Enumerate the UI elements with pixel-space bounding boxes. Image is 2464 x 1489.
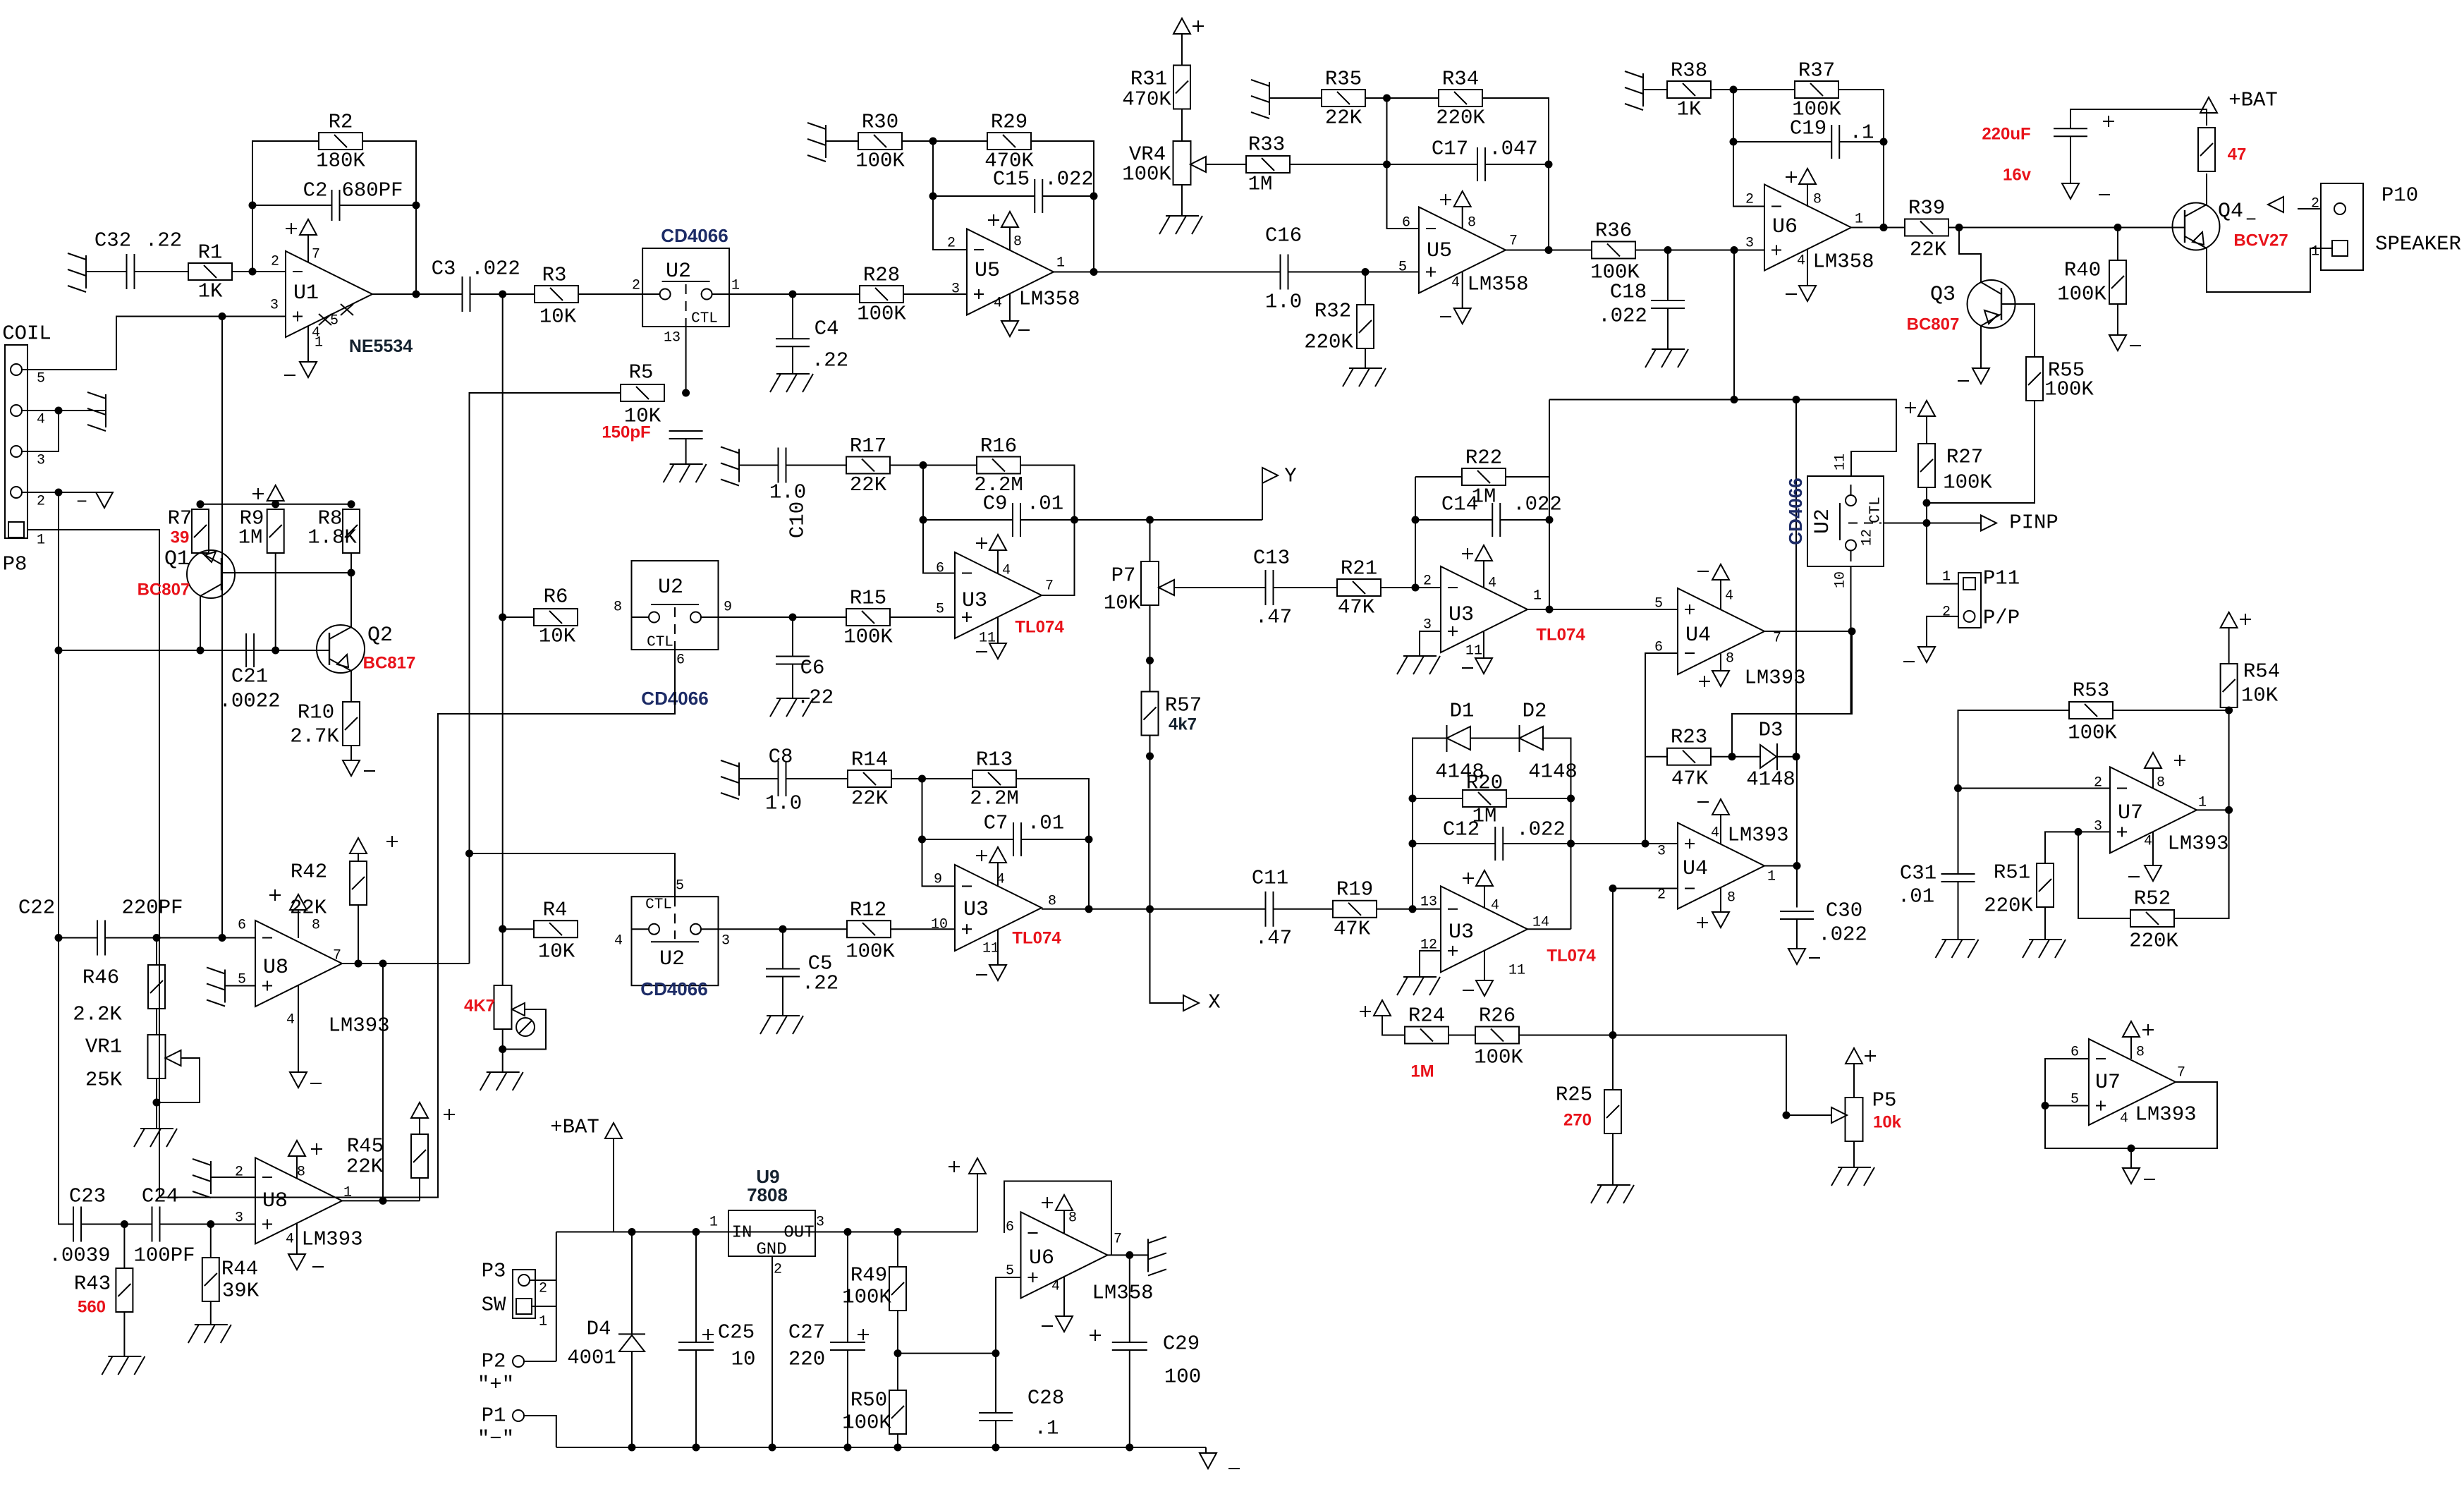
wire R52 to out (2174, 810, 2229, 918)
svg-text:R5: R5 (629, 361, 654, 384)
svg-text:2: 2 (1423, 573, 1432, 590)
node U3b out (1085, 905, 1093, 913)
power - U6a (1786, 286, 1816, 301)
connector P10 (2321, 183, 2363, 270)
wire C10 to R17 (786, 465, 847, 466)
wire R30 to R29 (902, 140, 987, 142)
svg-text:150pF: 150pF (602, 423, 650, 442)
wire control row (1549, 400, 1896, 477)
wire U9 gnd lead (771, 1256, 773, 1447)
op-amp U3d (1441, 566, 1527, 652)
svg-text:C27: C27 (788, 1321, 825, 1344)
node D3 column (1793, 396, 1800, 403)
power - P8 (96, 492, 113, 508)
wire U3d pin3 gnd (1420, 631, 1441, 656)
node C27 bottom (844, 1444, 852, 1452)
node D4 bottom (628, 1444, 636, 1452)
svg-text:1.8K: 1.8K (307, 526, 357, 549)
wire R25 stub (1612, 1035, 1614, 1090)
svg-text:U3: U3 (1448, 603, 1474, 627)
svg-text:8: 8 (1013, 234, 1022, 250)
svg-text:1.0: 1.0 (765, 792, 802, 815)
node C2 left (249, 202, 257, 209)
svg-text:CD4066: CD4066 (1785, 478, 1806, 545)
svg-text:100K: 100K (855, 150, 905, 173)
capacitor C32 (127, 254, 135, 289)
wire U3e V+ stem (1484, 886, 1485, 908)
wire R12 to U3b pin10 (891, 928, 955, 930)
svg-text:.22: .22 (812, 349, 848, 372)
svg-text:100K: 100K (842, 1286, 891, 1309)
wire R4 to signal net (503, 928, 534, 930)
capacitor C12 (1495, 827, 1503, 861)
svg-text:Q3: Q3 (1930, 283, 1956, 307)
wire C12 row to U4a pin3 (1571, 843, 1678, 844)
svg-text:47K: 47K (1338, 596, 1375, 619)
svg-text:100K: 100K (842, 1411, 891, 1435)
svg-text:R22: R22 (1465, 446, 1502, 470)
power + P5 (1846, 1048, 1876, 1064)
capacitor C19 (1831, 125, 1839, 159)
svg-text:1.0: 1.0 (769, 481, 806, 504)
node U1 pin3 (219, 312, 226, 320)
node U4b out (1848, 628, 1856, 636)
capacitor C29 (1090, 1330, 1147, 1350)
svg-text:22K: 22K (850, 473, 887, 497)
wire R26 to P5 (1613, 1035, 1831, 1116)
svg-text:4: 4 (1711, 825, 1719, 841)
svg-text:11: 11 (1508, 963, 1525, 979)
svg-text:1: 1 (731, 278, 740, 294)
capacitor C14 (1492, 503, 1500, 537)
node R20 left (1409, 795, 1417, 803)
wire R20 right stub (1506, 798, 1571, 799)
trimmer 4K7 (494, 985, 535, 1036)
connector P3/SW (513, 1270, 535, 1318)
svg-text:1.0: 1.0 (1265, 291, 1302, 314)
resistor R8 (343, 509, 360, 553)
svg-text:TL074: TL074 (1015, 618, 1064, 637)
svg-text:5: 5 (2070, 1092, 2079, 1108)
resistor R50 (889, 1390, 906, 1434)
power + U3e (1463, 870, 1493, 886)
wire C32 to R1 (135, 271, 189, 272)
resistor R9 (267, 509, 284, 553)
node R40 (2114, 224, 2122, 231)
connector P1 (513, 1410, 524, 1421)
wire U2a out to R28 (729, 293, 860, 295)
capacitor C7 (1013, 822, 1021, 856)
node U5a out (1090, 268, 1098, 276)
wire R1 to U1 pin2 (232, 271, 286, 272)
power - P11 (1903, 647, 1935, 662)
resistor R27 (1918, 444, 1935, 487)
svg-text:220PF: 220PF (121, 897, 183, 920)
wire C22 left (59, 937, 97, 939)
power + R45 (411, 1102, 455, 1120)
node PINP (1923, 519, 1931, 527)
svg-text:CTL: CTL (691, 311, 718, 327)
svg-text:R34: R34 (1442, 68, 1479, 91)
svg-text:680PF: 680PF (341, 179, 403, 202)
svg-text:1: 1 (1767, 869, 1776, 885)
wire U4b out drop (1732, 631, 1852, 757)
svg-text:22K: 22K (1910, 238, 1947, 262)
power + U5b (1440, 191, 1471, 207)
wire C31 stub (1958, 789, 1959, 875)
wire Q4 collector to 47R (2206, 174, 2207, 205)
capacitor C25 (678, 1329, 714, 1350)
wire R46 stub (156, 938, 157, 966)
wire C31 to gnd (1958, 882, 1959, 940)
power - U1 (284, 362, 317, 377)
svg-text:U1: U1 (293, 281, 319, 305)
wire U7a V- stem (2152, 832, 2154, 865)
node U8b out (379, 1197, 387, 1205)
svg-text:1: 1 (1855, 212, 1863, 228)
wire R42 bottom (358, 905, 359, 964)
svg-text:.1: .1 (1035, 1417, 1059, 1440)
svg-text:8: 8 (1726, 651, 1734, 667)
wire left fb vertical Y (923, 466, 955, 573)
wire U8a V- stem (298, 985, 299, 1072)
wire gnd to R35 (1269, 97, 1322, 99)
wire divider to U6b pin5 (898, 1353, 996, 1354)
wire C13 to R21 (1274, 587, 1338, 588)
svg-text:C12: C12 (1443, 818, 1480, 841)
svg-text:LM358: LM358 (1812, 250, 1874, 274)
svg-text:R23: R23 (1671, 726, 1707, 749)
wire R45 bottom (419, 1178, 420, 1201)
node C7 left (918, 836, 926, 844)
svg-text:8: 8 (297, 1165, 305, 1181)
connector P2 (513, 1356, 524, 1367)
svg-text:11: 11 (982, 941, 999, 957)
capacitor C8 (779, 761, 786, 796)
wire C27 top (847, 1232, 848, 1343)
svg-text:39K: 39K (222, 1280, 260, 1303)
wire P8 pin5 to U1 pin3 (22, 317, 286, 370)
wire C14 left stub (1415, 519, 1492, 521)
wire rail minus drop (1205, 1447, 1207, 1453)
wire R34 right down (1482, 98, 1549, 250)
wire R44 to gnd (210, 1301, 212, 1325)
svg-text:560: 560 (78, 1298, 106, 1317)
wire P3 pin2 stub (530, 1280, 556, 1281)
svg-text:R19: R19 (1336, 878, 1373, 901)
resistor R26 (1475, 1027, 1519, 1044)
svg-text:U3: U3 (1448, 920, 1474, 944)
power + U7a (2145, 753, 2185, 768)
wire C25 bottom (695, 1350, 697, 1447)
wire C5 to gnd (782, 977, 783, 1016)
wire R22 left stub (1415, 476, 1462, 478)
wire pin3 to R51 (2045, 832, 2078, 863)
svg-text:Y: Y (1284, 465, 1296, 488)
capacitor C11 (1266, 892, 1274, 927)
svg-text:2: 2 (539, 1281, 547, 1297)
op-amp U4a (1678, 823, 1764, 909)
svg-text:4: 4 (2120, 1111, 2128, 1127)
svg-text:.022: .022 (1516, 818, 1566, 841)
power - U7b (2123, 1168, 2155, 1184)
svg-text:R20: R20 (1466, 772, 1503, 795)
svg-text:.022: .022 (1513, 493, 1562, 516)
power - U3a (976, 643, 1006, 659)
node C9 left (920, 516, 927, 524)
wire C9 left stub (923, 519, 1013, 521)
svg-text:6: 6 (676, 652, 685, 669)
node R32 (1362, 268, 1370, 276)
node R23/D3 (1728, 753, 1736, 760)
svg-text:.0022: .0022 (219, 690, 280, 713)
svg-text:5: 5 (37, 371, 45, 387)
wire C6 to gnd (792, 664, 793, 699)
ground at 150pF (664, 464, 707, 482)
power - U7a (2128, 865, 2161, 881)
ground at C6 (770, 698, 813, 717)
power - Q3 (1958, 368, 1989, 384)
node U1pin3 riser (219, 934, 226, 942)
wire U9 in lead (711, 1232, 728, 1233)
wire R53 left to pin2 (1958, 710, 2070, 789)
svg-text:C6: C6 (800, 657, 825, 680)
node R35/R34 (1383, 95, 1391, 102)
node R43 (121, 1220, 128, 1228)
svg-text:P/P: P/P (1983, 607, 2020, 630)
svg-text:R35: R35 (1325, 68, 1362, 91)
node U7b pin5 (2042, 1102, 2049, 1110)
svg-text:LM393: LM393 (328, 1014, 389, 1038)
wiper arrow P7 (1159, 580, 1174, 595)
wire U5a V+ stem (1009, 227, 1011, 250)
svg-text:1: 1 (343, 1185, 352, 1201)
potentiometer VR4 (1173, 141, 1191, 185)
svg-text:2: 2 (37, 494, 45, 510)
svg-text:.47: .47 (1255, 606, 1292, 629)
wire U6b V- stem (1063, 1277, 1065, 1316)
connector P11 (1958, 573, 1981, 628)
svg-text:11: 11 (1833, 454, 1849, 470)
wire U4b V- stem (1720, 580, 1721, 609)
node U6a pin3 drop (1731, 396, 1738, 403)
capacitor C2 (332, 190, 340, 221)
svg-text:U3: U3 (962, 589, 987, 613)
wiper arrow P5 (1831, 1107, 1847, 1123)
wire U3a V+ stem (997, 550, 999, 573)
net arrow PINP (1981, 516, 1996, 531)
wire R42 top (358, 853, 359, 861)
svg-text:"+": "+" (477, 1373, 514, 1397)
svg-text:C9: C9 (983, 492, 1008, 516)
node R57 bottom (1146, 753, 1154, 760)
svg-text:22K: 22K (851, 787, 889, 810)
svg-text:.47: .47 (1255, 927, 1292, 950)
wire trimmer bottom (502, 1029, 504, 1072)
svg-text:.22: .22 (802, 972, 838, 995)
svg-text:6: 6 (1402, 215, 1410, 231)
svg-text:U3: U3 (963, 898, 989, 922)
svg-text:180K: 180K (316, 150, 365, 173)
node R42 (355, 960, 362, 968)
op-amp U7b (2089, 1039, 2176, 1125)
svg-text:R21: R21 (1341, 557, 1377, 581)
ground at 4K7 (480, 1072, 523, 1090)
svg-text:4: 4 (1488, 576, 1496, 592)
wire R15 to U3a pin5 (890, 616, 955, 618)
wire R23 to D3 (1711, 756, 1760, 758)
resistor R55 (2026, 357, 2043, 401)
wire U9 out lead (815, 1232, 848, 1233)
wire R20 left stub (1413, 798, 1463, 799)
svg-text:22K: 22K (290, 897, 327, 920)
resistor R52 (2130, 910, 2174, 927)
wire U4a V- stem (1720, 815, 1721, 844)
wire U3d V+ stem (1483, 561, 1484, 588)
wire C12 right stub (1504, 843, 1571, 844)
svg-text:1K: 1K (198, 280, 223, 303)
svg-text:Q4: Q4 (2218, 200, 2243, 224)
wire U2c pin9 stub (719, 616, 847, 618)
svg-text:R53: R53 (2073, 679, 2109, 703)
svg-text:5: 5 (1654, 596, 1663, 612)
wire Q2 collector (350, 573, 352, 627)
svg-text:47: 47 (2228, 145, 2247, 164)
svg-text:P10: P10 (2381, 184, 2418, 207)
wire Y branch (1262, 475, 1263, 520)
node R9 top (272, 500, 279, 508)
offset-null cross pins U1 (319, 304, 353, 325)
svg-text:25K: 25K (85, 1069, 123, 1092)
node C14 right (1546, 516, 1554, 524)
svg-text:470K: 470K (1122, 88, 1171, 111)
resistor R43 (116, 1268, 133, 1312)
wire D3 column (1795, 400, 1797, 757)
wire C29 stub (1129, 1255, 1130, 1342)
wire left fb vertical X (922, 779, 956, 886)
node R49 top (894, 1228, 902, 1236)
resistor R45 (411, 1134, 428, 1178)
node X/C11 (1146, 905, 1154, 913)
node Q3 collector (1956, 224, 1963, 231)
power + R31 (1173, 18, 1204, 34)
svg-text:1: 1 (315, 335, 323, 351)
wire U8 outputs link (382, 964, 384, 1201)
capacitor C28 (979, 1413, 1013, 1421)
power + R42 (350, 836, 398, 853)
net arrow speaker minus (2268, 197, 2283, 212)
op-amp U3a (955, 552, 1042, 638)
wire P5 bottom (1853, 1141, 1855, 1167)
wire R24 left (1382, 1016, 1405, 1035)
wire gnd to C10 (739, 465, 779, 466)
wire U5b V+ stem (1462, 207, 1463, 229)
wire U3d out (1527, 609, 1581, 610)
wire C19 left stub (1733, 141, 1831, 142)
svg-text:4: 4 (2144, 834, 2152, 850)
node C2 right (413, 202, 420, 209)
wire U3a out (1042, 554, 1075, 595)
node R50 gnd (894, 1444, 902, 1452)
wire C9 row to P7 (1075, 519, 1263, 521)
svg-text:1K: 1K (1677, 98, 1702, 121)
svg-text:PINP: PINP (2009, 511, 2059, 535)
wire U8a out (342, 963, 470, 964)
wire Q3 base to R55 (2001, 304, 2035, 357)
node U7a pin3 (2075, 828, 2082, 836)
svg-text:U7: U7 (2118, 801, 2143, 825)
node C7 right (1085, 836, 1093, 844)
svg-text:16v: 16v (2003, 166, 2032, 185)
wire C2 right stub (340, 205, 416, 206)
svg-text:4001: 4001 (567, 1347, 616, 1370)
node R5/150pF/CTL (682, 389, 690, 397)
svg-text:2: 2 (1745, 192, 1754, 208)
power + R27 (1905, 401, 1935, 416)
wire battery rail (556, 1232, 977, 1233)
node C12 right (1567, 840, 1575, 848)
diode D3 (1760, 743, 1777, 770)
ground at P8 (87, 392, 106, 431)
svg-text:R7: R7 (168, 507, 193, 530)
wire C16 to U5b pin5 (1288, 272, 1420, 273)
wire C2 left stub (252, 205, 331, 206)
svg-text:C22: C22 (18, 897, 55, 920)
wire C7 right stub (1021, 839, 1089, 840)
svg-text:P7: P7 (1111, 564, 1136, 588)
svg-text:8: 8 (1813, 192, 1822, 208)
svg-text:100K: 100K (1943, 471, 1992, 494)
wire U3d V- stem (1483, 631, 1484, 658)
power + U8b (288, 1141, 322, 1156)
power - U8a (290, 1072, 322, 1088)
node P5 wiper (1783, 1112, 1791, 1119)
node C28 (992, 1349, 1000, 1357)
svg-text:6: 6 (238, 918, 246, 934)
voltage regulator U9 7808 (728, 1210, 815, 1256)
svg-text:2.2M: 2.2M (970, 787, 1019, 810)
wire C11 row (1150, 908, 1266, 910)
node U4a out (1793, 862, 1801, 870)
power - 220uF (2062, 183, 2110, 199)
wire P8 pin3 up (22, 411, 59, 451)
node C14 left (1412, 516, 1420, 524)
svg-text:U5: U5 (975, 259, 1000, 283)
node signal/R4 (499, 925, 506, 933)
node C15 right (1090, 193, 1098, 200)
capacitor C16 (1281, 255, 1288, 290)
svg-text:R42: R42 (291, 861, 327, 884)
wire R39 node to Q3 collector (1959, 228, 1981, 283)
wire R39 to Q4 base (1948, 227, 2185, 229)
svg-text:X: X (1208, 991, 1220, 1014)
resistor R30 (858, 133, 902, 150)
wire P8 pin2 (22, 492, 104, 493)
node C19 right (1880, 138, 1888, 146)
wire feedback left vertical (252, 141, 319, 272)
svg-text:U2: U2 (658, 576, 683, 600)
svg-text:8: 8 (2136, 1045, 2145, 1061)
wire U7b pin6 loop (2045, 1059, 2089, 1106)
wire C19 right stub (1840, 141, 1884, 142)
wire P5 top (1853, 1064, 1855, 1098)
wire U1 V+ stem (307, 235, 309, 262)
svg-text:R2: R2 (329, 111, 353, 134)
svg-text:2: 2 (632, 278, 640, 294)
svg-text:R15: R15 (850, 587, 886, 610)
wire U6a out row (1851, 227, 1905, 229)
wire D1-D2 link (1470, 738, 1520, 739)
